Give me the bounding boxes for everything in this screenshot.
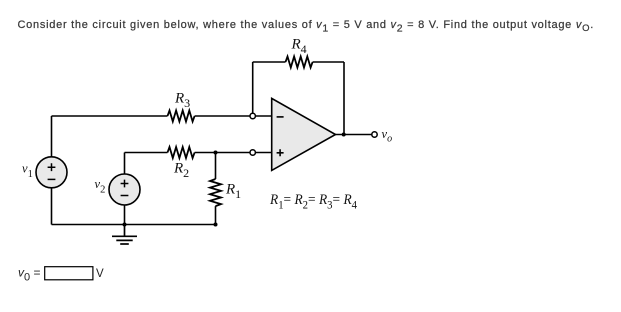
junction dot R1-bottom (214, 223, 218, 227)
wire v1 bottom vertical (51, 188, 53, 225)
svg-text:R4: R4 (291, 36, 307, 56)
resistor R1 (210, 179, 221, 206)
v2 plus symbol (121, 180, 129, 188)
wire v2 bottom vertical (124, 205, 126, 225)
svg-text:Consider the circuit given bel: Consider the circuit given below, where … (18, 19, 594, 35)
wire plus-input horizontal right (R2 to op-amp) (195, 152, 272, 154)
svg-text:R1: R1 (225, 182, 241, 202)
svg-text:vo: vo (382, 127, 393, 144)
svg-text:V: V (96, 268, 104, 280)
voltage source v2 (109, 174, 140, 205)
junction dot output-feedback (342, 133, 346, 137)
wire v2 top vertical (124, 153, 126, 175)
op-amp plus input symbol (277, 149, 284, 156)
v1 plus symbol (48, 163, 56, 171)
svg-text:v2: v2 (95, 177, 106, 196)
wire feedback top right (313, 61, 344, 63)
junction dot R1-top (214, 151, 218, 155)
svg-text:R1= R2= R3= R4: R1= R2= R3= R4 (269, 192, 357, 212)
resistor R3 (168, 111, 195, 122)
op-amp minus input symbol (277, 116, 284, 118)
wire minus-input horizontal right (R3 to op-amp) (195, 115, 272, 117)
v2 minus symbol (121, 195, 129, 197)
wire bottom horizontal (52, 224, 216, 226)
resistor R4 (286, 57, 313, 68)
ground (112, 225, 137, 245)
wire feedback right vertical (343, 62, 345, 135)
wire output horizontal (336, 134, 373, 136)
wire R1 bottom vertical (215, 206, 217, 224)
svg-text:v1: v1 (22, 161, 33, 180)
node terminal output (372, 132, 377, 137)
answer input box (45, 267, 93, 280)
wire plus-input horizontal left (v2 to R2) (125, 152, 168, 154)
svg-text:v0 =: v0 = (18, 266, 40, 284)
node terminal plus input (250, 150, 255, 155)
node terminal minus input (250, 113, 255, 118)
junction dot v2-bottom (123, 223, 127, 227)
wire feedback left vertical (252, 62, 254, 116)
resistor R2 (168, 147, 195, 158)
op-amp U1 (272, 98, 336, 170)
wire v1 top vertical (51, 116, 53, 157)
voltage source v1 (36, 157, 67, 188)
wire R1 top vertical (215, 153, 217, 180)
svg-text:R2: R2 (173, 161, 189, 181)
wire minus-input horizontal left (v1 to R3) (52, 115, 168, 117)
svg-text:R3: R3 (174, 91, 190, 111)
wire feedback top left (to R4) (253, 61, 286, 63)
v1 minus symbol (48, 178, 56, 180)
